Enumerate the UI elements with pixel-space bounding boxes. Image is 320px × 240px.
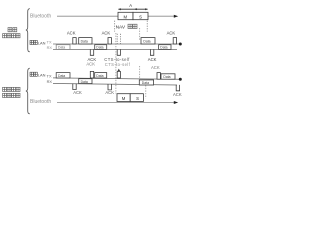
svg-text:TX: TX (47, 73, 52, 78)
Data box RX1 #1 (56, 45, 70, 50)
svg-text:ACK: ACK (86, 62, 95, 67)
svg-text:ACK: ACK (67, 31, 76, 36)
WLAN2 label 无线LAN (30, 72, 33, 76)
Bluetooth line (device1) (57, 15, 175, 17)
ACK pulse TX2 #1 (90, 71, 93, 78)
svg-text:ACK: ACK (148, 57, 157, 62)
svg-text:LAN: LAN (38, 72, 46, 77)
ACK pulse TX1 #1 (73, 38, 76, 44)
svg-text:M: M (122, 96, 126, 101)
svg-text:NAV: NAV (116, 25, 126, 31)
svg-text:RX: RX (47, 45, 53, 50)
dashed alignment line NAV end mid (139, 66, 141, 78)
svg-text:ACK: ACK (105, 90, 114, 95)
TX2 line (53, 78, 179, 79)
svg-text:Bluetooth: Bluetooth (30, 14, 51, 20)
RX2 line (53, 84, 177, 86)
svg-text:TX: TX (47, 39, 52, 44)
Data box RX2 #4 (139, 80, 153, 85)
svg-text:Data: Data (58, 74, 65, 78)
NAV left dashed tick (114, 21, 116, 32)
svg-text:ACK: ACK (73, 90, 82, 95)
TX2 end dot (179, 78, 182, 81)
ACK down pulse RX2 #1 (73, 84, 76, 90)
svg-text:ACK: ACK (167, 31, 176, 36)
svg-text:S: S (139, 15, 142, 20)
svg-text:Data: Data (142, 81, 149, 85)
ACK down pulse RX2 #3 (176, 85, 179, 91)
TX1 end dot (179, 43, 182, 46)
ACK down pulse RX2 #2 (108, 84, 111, 90)
Data box TX1 #4 (141, 38, 155, 44)
svg-text:Data: Data (81, 40, 88, 44)
svg-text:LAN: LAN (38, 41, 46, 46)
device2 label 相手无线/通信设备 (CJK blobs) (3, 87, 7, 91)
Data box TX2 #3 (95, 73, 107, 78)
svg-text:ACK: ACK (102, 31, 111, 36)
slot box M (BT1) (118, 12, 133, 19)
RX1 line (53, 48, 177, 50)
long dashed alignment line (NAV start) (115, 33, 117, 94)
WLAN1 label 无线LAN (30, 40, 33, 44)
svg-text:Data: Data (96, 46, 103, 50)
BT1 end arrow (174, 15, 178, 18)
CTS-to-self dashed pulse TX1 (116, 34, 118, 44)
ACK down pulse RX1 #2 (150, 49, 153, 55)
ACK pulse TX1 #2 (108, 38, 111, 44)
Data box RX1 #3 (95, 45, 107, 50)
CTS pulse TX2 (117, 71, 120, 78)
Data box TX2 #1 (56, 73, 70, 78)
svg-text:S: S (136, 96, 139, 101)
CTS arrowhead (device2) (117, 69, 120, 72)
brace device2 (26, 68, 30, 114)
svg-text:Data: Data (81, 80, 88, 84)
Data box RX1 #5 (159, 45, 171, 50)
svg-text:Data: Data (160, 46, 167, 50)
dimension arrow A over M/S (118, 8, 147, 10)
svg-text:ACK: ACK (151, 65, 160, 70)
slot box S (BT1) (133, 12, 148, 19)
svg-text:Data: Data (163, 75, 170, 79)
Data box TX1 #2 (79, 38, 92, 44)
dashed alignment line lower right (145, 85, 147, 98)
Bluetooth line (device2) (57, 102, 175, 104)
svg-text:ACK: ACK (173, 92, 182, 97)
svg-text:M: M (124, 15, 128, 20)
svg-text:Bluetooth: Bluetooth (30, 99, 51, 105)
slot box M (BT2) (117, 94, 130, 102)
Data box RX2 #2 (79, 79, 92, 84)
svg-text:RX: RX (47, 79, 53, 84)
dashed alignment line NAV end upper (139, 28, 141, 40)
brace device1 (26, 9, 30, 52)
ACK pulse TX1 #3 (173, 38, 176, 44)
device1 label 无线/通信设备 (CJK blobs) (8, 28, 12, 32)
slot box S (BT2) (130, 94, 143, 102)
BT2 end arrow (174, 101, 178, 104)
svg-text:Data: Data (96, 74, 103, 78)
svg-text:CTS-to-self: CTS-to-self (105, 62, 131, 67)
svg-text:Data: Data (143, 40, 150, 44)
TX1 line (53, 43, 179, 45)
ACK pulse TX2 #2 (157, 73, 160, 80)
ACK down pulse RX1 #1 (90, 49, 93, 55)
CTS-to-self down pulse RX1 (117, 49, 120, 55)
NAV right dashed tick (146, 21, 148, 32)
svg-text:A: A (129, 3, 132, 8)
Data box TX2 #5 (161, 74, 175, 79)
svg-text:Data: Data (58, 46, 65, 50)
